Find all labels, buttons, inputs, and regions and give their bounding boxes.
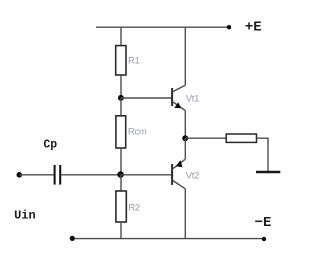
node output junction dot [182, 135, 188, 141]
node -E terminal dot [262, 237, 266, 241]
wire R2 bottom to -E rail [120, 222, 122, 239]
wire Cp to node B [61, 174, 121, 176]
wire bottom -E rail [72, 238, 264, 240]
wire output node to load resistor [185, 137, 226, 139]
transistor Vt1 [172, 85, 185, 110]
wire top +E rail [96, 26, 229, 28]
wire output node to Vt2 emitter [184, 138, 186, 159]
svg-text:Rcm: Rcm [128, 127, 147, 138]
node bottom-left terminal dot [70, 236, 75, 241]
svg-text:Vt1: Vt1 [186, 94, 199, 105]
wire Vt2 collector to -E rail [184, 189, 186, 239]
resistor Rcm [116, 116, 126, 148]
input terminal dot [17, 172, 23, 178]
svg-text:Uin: Uin [14, 209, 36, 223]
wire load resistor to ground corner [257, 138, 269, 171]
wire node A to Rcm top [120, 98, 122, 116]
transistor Vt2 [172, 159, 185, 189]
wire node B to R2 top [120, 175, 122, 191]
wire input terminal to Cp [19, 174, 54, 176]
wire Vt1 collector from +E rail [184, 27, 186, 85]
wire Rcm bottom to node B [120, 148, 122, 175]
node A junction dot [118, 95, 124, 101]
wire R1 top lead [120, 27, 122, 46]
resistor R2 [116, 191, 126, 222]
svg-text:−E: −E [255, 215, 272, 231]
svg-text:Cp: Cp [43, 138, 57, 151]
svg-text:+E: +E [245, 20, 262, 36]
wire node A to Vt1 base [121, 97, 172, 99]
resistor R1 [116, 46, 126, 75]
svg-text:R1: R1 [128, 55, 140, 66]
wire R1 bottom lead to node A [120, 75, 122, 98]
node B junction dot [117, 171, 124, 178]
node +E terminal dot [227, 25, 231, 29]
capacitor Cp [54, 165, 56, 185]
wire node B to Vt2 base [121, 174, 173, 176]
ground [256, 171, 280, 173]
resistor load (horizontal) [226, 134, 256, 142]
svg-text:Vt2: Vt2 [186, 171, 199, 182]
svg-text:R2: R2 [128, 203, 140, 214]
wire Vt1 emitter to output node [184, 111, 186, 139]
